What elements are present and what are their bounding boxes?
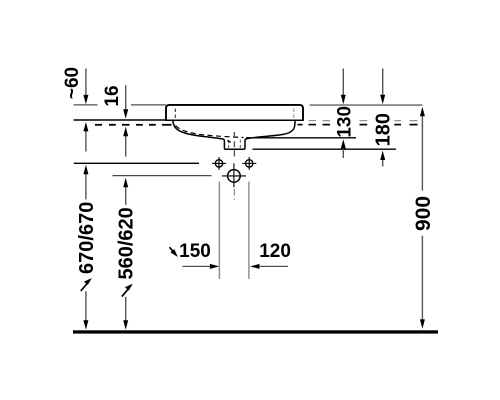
basin bottom reference line (130 level) (246, 137, 356, 139)
bowl interior hidden dashed line (176, 126, 244, 138)
counter dashed line left (95, 124, 172, 126)
fixing hole right cross (242, 162, 256, 164)
svg-text:~60: ~60 (62, 67, 83, 99)
dimension 670/670 upper arrow (85, 171, 87, 199)
dimension 900 lower line (421, 236, 423, 321)
dimension 670/670 leader arrow (81, 283, 88, 291)
rim inner edge hidden line left (174, 109, 176, 120)
under-rim line left (74, 119, 167, 121)
svg-text:16: 16 (102, 85, 123, 106)
dimension 120 arrow (250, 264, 259, 269)
dimension 130 line (342, 69, 344, 97)
dimension 560/620 leader arrow (122, 289, 129, 297)
svg-text:900: 900 (412, 196, 435, 231)
faucet hole (228, 170, 241, 183)
washbasin bowl outline (173, 120, 296, 149)
dimension ~60 line (85, 69, 87, 98)
extension line rim-top right segment (310, 104, 423, 106)
fixing hole left cross (212, 162, 226, 164)
washbasin rim bottom edge (165, 119, 304, 121)
left reference line (560/620 level) (113, 175, 212, 177)
faucet hole cross (222, 175, 246, 177)
floor line (73, 330, 438, 333)
counter dashed line right lower (black) (298, 124, 418, 126)
centre line dashed lower (233, 189, 235, 200)
dimension 560/620 upper arrow (125, 184, 127, 205)
drain detail tick (227, 140, 230, 142)
dimension 180 line (382, 69, 384, 97)
dimension 670/670 lower line (85, 291, 87, 322)
counter dashed line right upper (gray) (309, 120, 418, 122)
fixing hole left (215, 160, 222, 167)
dimension 16 lower arrow segment (125, 133, 127, 157)
dimension 60-to-120 lower arrow segment (85, 128, 87, 152)
svg-text:180: 180 (373, 113, 395, 146)
extension line rim-top middle segment (131, 104, 166, 106)
fixing hole right (246, 160, 253, 167)
svg-text:560/620: 560/620 (116, 207, 138, 279)
rim inner edge hidden line right (293, 109, 295, 120)
svg-text:130: 130 (334, 106, 355, 138)
drain bottom reference line (180 level) (253, 148, 397, 150)
washbasin rim (side view) (166, 105, 303, 120)
dimension 16 line (125, 85, 127, 111)
dimension 180 lower arrow (382, 157, 384, 167)
dimension 560/620 lower line (125, 297, 127, 322)
dimension 150 leader arrow (170, 247, 174, 252)
left reference line (670 level) (74, 162, 199, 164)
hole extension line left (218, 182, 220, 280)
centre line dashed upper (233, 132, 235, 158)
dimension 130 lower arrow (342, 145, 344, 158)
svg-text:670/670: 670/670 (76, 202, 98, 274)
svg-text:120: 120 (259, 241, 291, 262)
hole extension line right (248, 182, 250, 280)
drain hidden lines inside stem (228, 140, 230, 149)
extension line rim-top left segment (74, 104, 98, 106)
dimension 150 arrow (182, 265, 211, 267)
dimension 900 upper arrow (421, 113, 423, 191)
svg-text:150: 150 (179, 241, 211, 262)
